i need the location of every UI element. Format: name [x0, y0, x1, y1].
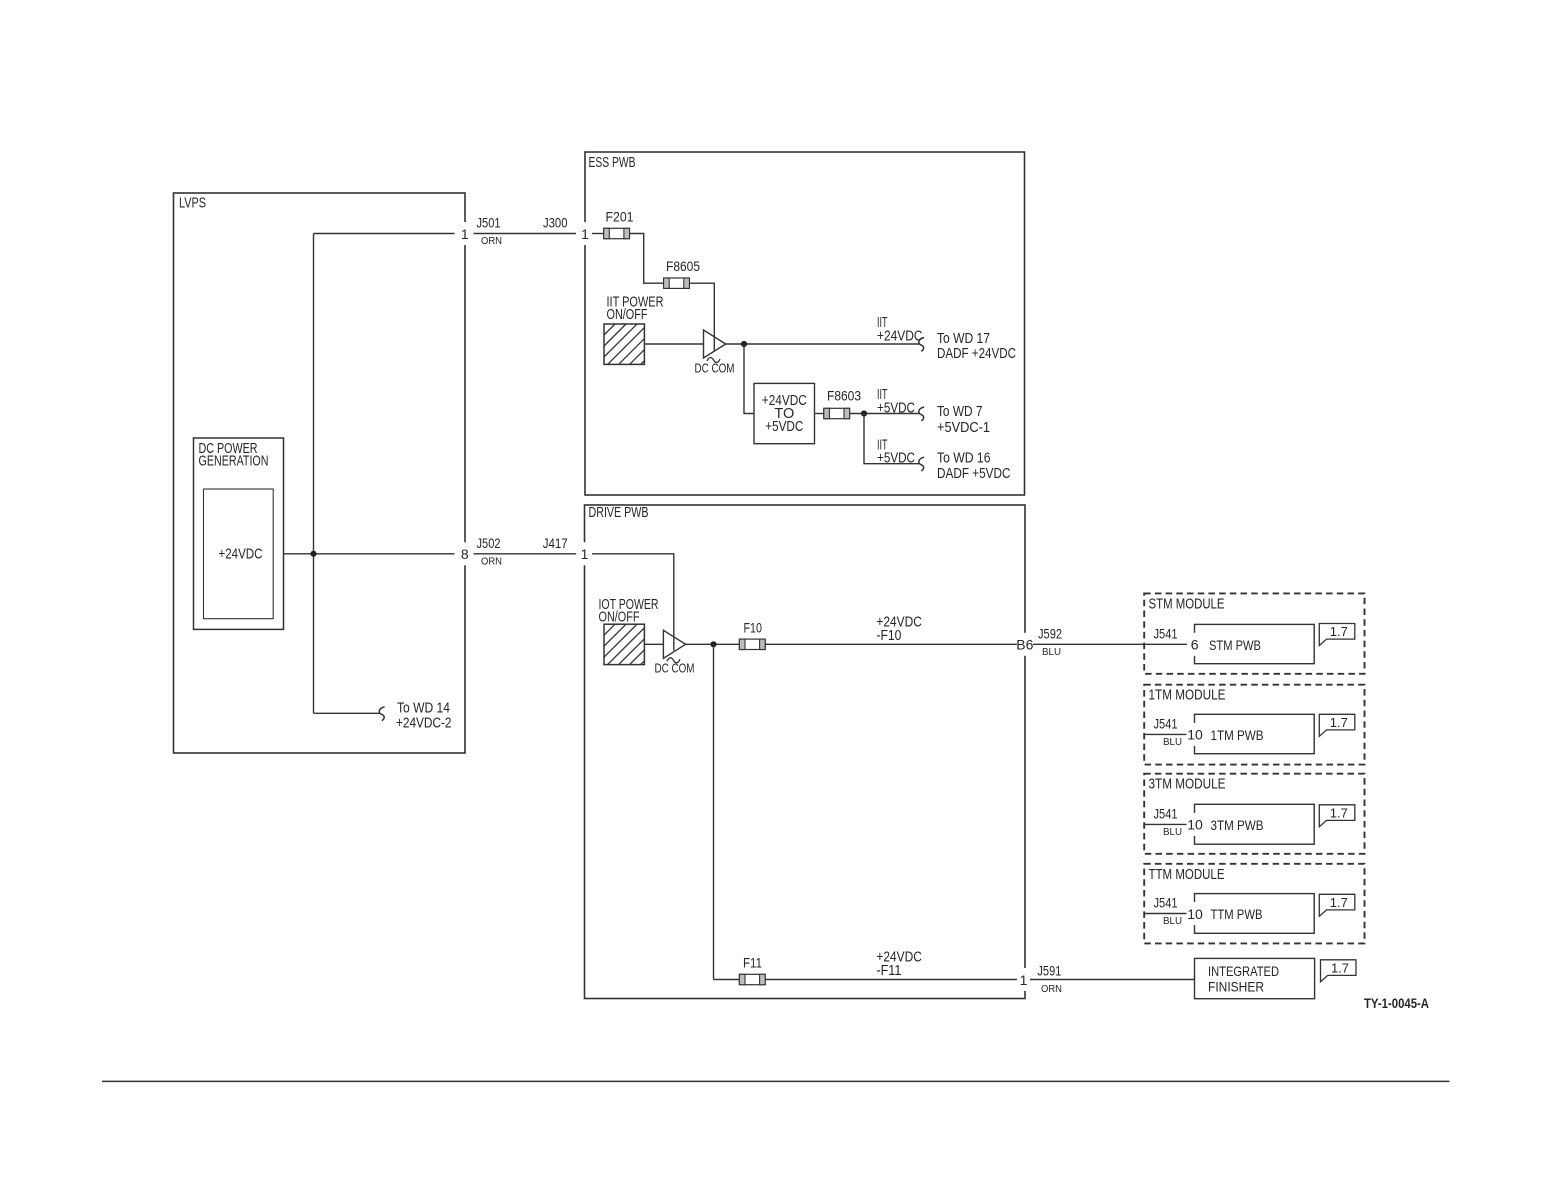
label To WD 16 DADF +5VDC — [937, 450, 1011, 482]
fuse F10 — [739, 619, 765, 649]
TTM MODULE dashed box — [1144, 864, 1364, 944]
3TM PWB box — [1195, 804, 1315, 844]
+24VDC source block — [204, 489, 274, 619]
label IIT +24VDC — [877, 315, 923, 345]
svg-text:LVPS: LVPS — [179, 195, 206, 212]
svg-text:3TM PWB: 3TM PWB — [1211, 817, 1264, 833]
wire J501-J300 harness — [474, 233, 577, 235]
svg-text:To WD 7: To WD 7 — [937, 404, 983, 420]
wire stub to WD 14 — [314, 712, 381, 714]
svg-text:TTM MODULE: TTM MODULE — [1149, 867, 1225, 883]
flag 1.7 (1TM) — [1319, 714, 1355, 736]
buffer driver IOT — [663, 630, 685, 658]
svg-text:+24VDC: +24VDC — [219, 547, 263, 563]
label J591 ORN — [1037, 963, 1062, 996]
svg-text:J541: J541 — [1154, 716, 1178, 732]
svg-text:J541: J541 — [1154, 895, 1178, 911]
pin 10 3TM PWB — [1187, 813, 1204, 836]
INTEGRATED FINISHER box — [1195, 958, 1315, 998]
pin 1 J300 — [580, 222, 591, 245]
pin 10 1TM PWB — [1187, 723, 1204, 746]
svg-text:10: 10 — [1187, 817, 1203, 833]
wire F8605 to buffer power — [689, 283, 714, 351]
DC power generation block — [194, 438, 284, 629]
label J501 ORN — [477, 215, 503, 247]
wire stub J541 (3TM) — [1144, 823, 1187, 825]
svg-text:GENERATION: GENERATION — [199, 453, 269, 470]
svg-text:STM PWB: STM PWB — [1209, 637, 1261, 653]
svg-text:+5VDC-1: +5VDC-1 — [937, 420, 990, 436]
svg-text:1.7: 1.7 — [1331, 960, 1349, 975]
svg-text:J591: J591 — [1037, 963, 1061, 979]
svg-text:ON/OFF: ON/OFF — [599, 610, 640, 626]
wire to +24VDC/+5VDC converter — [744, 344, 754, 414]
wire F8603 to IIT +5VDC out — [850, 413, 920, 415]
svg-text:ON/OFF: ON/OFF — [607, 307, 648, 323]
svg-text:1.7: 1.7 — [1330, 895, 1348, 910]
svg-text:ESS PWB: ESS PWB — [589, 155, 636, 171]
pin 10 TTM PWB — [1187, 902, 1204, 925]
svg-text:6: 6 — [1191, 637, 1199, 653]
svg-text:1: 1 — [581, 546, 589, 562]
LVPS enclosure box — [174, 193, 466, 753]
label J541 BLU (TTM) — [1154, 895, 1183, 928]
wire F10 to pin B6 — [765, 643, 1017, 645]
pin 1 J591 — [1018, 968, 1029, 991]
svg-text:1.7: 1.7 — [1330, 624, 1348, 639]
label IIT POWER ON/OFF — [607, 294, 664, 323]
label IIT +5VDC (WD 7) — [877, 387, 915, 416]
label IIT +5VDC (WD 16) — [877, 437, 915, 466]
svg-text:J417: J417 — [543, 535, 568, 551]
svg-text:J502: J502 — [477, 535, 501, 551]
svg-text:+5VDC: +5VDC — [765, 419, 803, 435]
svg-text:FINISHER: FINISHER — [1208, 979, 1264, 995]
svg-text:ORN: ORN — [481, 555, 502, 567]
fuse F11 — [739, 955, 765, 985]
svg-text:To WD 16: To WD 16 — [937, 450, 991, 466]
wire stub J541 (TTM) — [1144, 913, 1187, 915]
STM MODULE dashed box — [1144, 593, 1364, 673]
wire IIT +24VDC output — [726, 343, 920, 345]
svg-text:1: 1 — [461, 226, 469, 242]
svg-text:STM MODULE: STM MODULE — [1149, 596, 1225, 612]
label J502 ORN — [477, 535, 503, 568]
converter +24VDC TO +5VDC — [754, 383, 815, 443]
svg-text:10: 10 — [1187, 906, 1203, 922]
wire J591 harness to finisher — [1030, 979, 1195, 981]
svg-text:F8603: F8603 — [827, 388, 861, 404]
svg-text:-F10: -F10 — [876, 628, 901, 644]
wire +24VDC feed vertical (J501 branch) — [313, 234, 315, 714]
pin 8 J502 — [459, 542, 470, 565]
bottom rule line — [102, 1080, 1450, 1082]
svg-text:DC COM: DC COM — [695, 360, 735, 375]
flag 1.7 (STM) — [1319, 624, 1355, 646]
svg-text:J501: J501 — [477, 215, 501, 231]
label J541 BLU (3TM) — [1154, 806, 1183, 839]
junction IIT +24VDC node — [741, 341, 747, 347]
label To WD 17 DADF +24VDC — [937, 331, 1016, 362]
tilde DC COM (IIT) — [707, 357, 720, 362]
1TM PWB box — [1195, 714, 1315, 753]
svg-text:BLU: BLU — [1163, 915, 1182, 927]
ESS PWB board box — [585, 152, 1025, 495]
pin 6 STM PWB — [1189, 633, 1201, 656]
svg-text:8: 8 — [461, 546, 469, 562]
wire J502-J417 harness — [474, 553, 577, 555]
svg-text:ORN: ORN — [1041, 983, 1062, 995]
wire F201 to F8605 — [630, 234, 664, 284]
switch block IIT POWER ON/OFF — [604, 324, 644, 364]
svg-text:DRIVE PWB: DRIVE PWB — [589, 505, 649, 521]
off-page connector To WD 14 — [379, 707, 384, 721]
TTM PWB box — [1195, 894, 1315, 934]
svg-text:J541: J541 — [1154, 625, 1178, 641]
junction IOT +24VDC node — [710, 641, 716, 647]
DRIVE PWB board box — [585, 505, 1026, 999]
tilde DC COM (IOT) — [667, 658, 680, 663]
svg-text:ORN: ORN — [481, 235, 502, 247]
svg-text:TTM PWB: TTM PWB — [1211, 906, 1263, 922]
svg-text:1.7: 1.7 — [1330, 805, 1348, 820]
off-page connector IIT +5VDC (WD 7) — [919, 407, 924, 421]
wire converter to F8603 — [815, 413, 824, 415]
svg-text:To WD 14: To WD 14 — [397, 701, 450, 717]
svg-text:BLU: BLU — [1163, 826, 1182, 838]
fuse F201 — [604, 209, 634, 239]
svg-text:F201: F201 — [606, 209, 634, 225]
wire stub J541 (1TM) — [1144, 733, 1187, 735]
wire J300 pin1 to F201 — [592, 233, 604, 235]
fuse F8605 — [664, 258, 701, 288]
pin 1 J417 — [579, 542, 590, 565]
svg-text:3TM MODULE: 3TM MODULE — [1149, 777, 1226, 793]
svg-text:F10: F10 — [744, 619, 763, 635]
wire F11 branch vertical — [713, 644, 715, 979]
3TM MODULE dashed box — [1144, 774, 1364, 854]
svg-text:1TM PWB: 1TM PWB — [1211, 727, 1264, 743]
svg-text:J541: J541 — [1154, 806, 1178, 822]
svg-text:INTEGRATED: INTEGRATED — [1208, 963, 1279, 979]
svg-text:To WD 17: To WD 17 — [937, 331, 990, 347]
wire J417 pin1 to buffer power — [592, 554, 674, 651]
flag 1.7 (TTM) — [1319, 894, 1355, 916]
svg-text:J592: J592 — [1038, 625, 1062, 641]
svg-text:B6: B6 — [1016, 637, 1033, 653]
fuse F8603 — [824, 388, 861, 419]
flag 1.7 (finisher) — [1321, 960, 1357, 982]
wire J592 harness to STM — [1033, 643, 1187, 645]
svg-text:-F11: -F11 — [876, 963, 901, 979]
off-page connector IIT +5VDC (WD 16) — [919, 457, 924, 471]
wire IOT output to F10 and B6 — [686, 643, 740, 645]
wire to WD16 branch — [864, 414, 920, 464]
label J541 BLU (1TM) — [1154, 716, 1183, 749]
svg-text:1.7: 1.7 — [1330, 715, 1348, 730]
svg-text:BLU: BLU — [1042, 646, 1061, 658]
flag 1.7 (3TM) — [1319, 805, 1355, 827]
svg-text:+24VDC: +24VDC — [877, 329, 923, 345]
svg-text:DADF +5VDC: DADF +5VDC — [937, 466, 1011, 482]
svg-text:10: 10 — [1187, 727, 1203, 743]
pin 1 J501 — [459, 222, 470, 245]
off-page connector IIT +24VDC — [919, 338, 924, 352]
STM PWB box — [1195, 624, 1315, 663]
label +24VDC -F11 — [876, 950, 922, 979]
wire switch to buffer (IOT) — [644, 643, 663, 645]
label To WD 7 +5VDC-1 — [937, 404, 990, 436]
svg-text:+5VDC: +5VDC — [877, 400, 915, 416]
label J592 BLU — [1038, 625, 1062, 658]
1TM MODULE dashed box — [1144, 685, 1364, 765]
switch block IOT POWER ON/OFF — [604, 624, 644, 664]
pin B6 J592 — [1017, 633, 1033, 656]
svg-text:DADF +24VDC: DADF +24VDC — [937, 346, 1016, 362]
wire from +24VDC source to J502 — [283, 553, 454, 555]
junction IIT +5VDC node — [861, 410, 867, 416]
label To WD 14 +24VDC-2 — [396, 701, 452, 732]
svg-text:1: 1 — [1020, 972, 1028, 988]
svg-text:F11: F11 — [743, 955, 762, 971]
svg-text:F8605: F8605 — [666, 258, 700, 274]
wire J501 horizontal inside LVPS — [314, 233, 455, 235]
svg-text:J300: J300 — [543, 215, 568, 231]
svg-text:+5VDC: +5VDC — [877, 450, 915, 466]
svg-text:DC COM: DC COM — [655, 661, 695, 676]
label IOT POWER ON/OFF — [599, 597, 659, 626]
svg-text:+24VDC-2: +24VDC-2 — [396, 716, 452, 732]
wire F11 to pin 1 J591 — [765, 979, 1017, 981]
wire switch to buffer — [644, 343, 703, 345]
label +24VDC -F10 — [876, 615, 922, 644]
wire to F11 — [714, 979, 740, 981]
svg-text:1TM MODULE: 1TM MODULE — [1149, 688, 1226, 704]
svg-text:1: 1 — [581, 226, 589, 242]
svg-text:BLU: BLU — [1163, 736, 1182, 748]
buffer driver IIT — [704, 330, 726, 358]
junction +24VDC node — [310, 551, 316, 557]
svg-text:TY-1-0045-A: TY-1-0045-A — [1364, 996, 1429, 1011]
